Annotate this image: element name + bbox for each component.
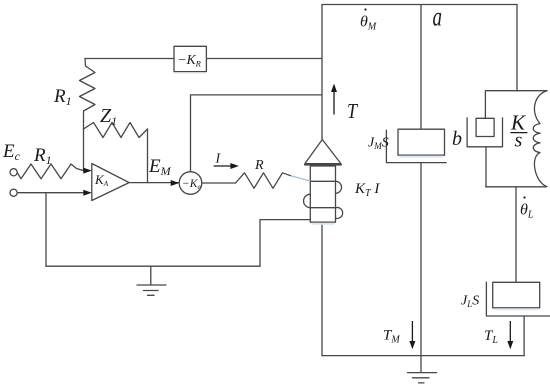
arrow T (up) bbox=[333, 91, 335, 115]
wire -Ke top feedback to theta_M line bbox=[191, 95, 323, 172]
motor base bar bbox=[305, 164, 341, 166]
wire summing node vertical bbox=[83, 129, 85, 171]
wire left vertical (motor shaft node theta_M) bbox=[321, 5, 323, 140]
wire bottom ground bus bbox=[322, 355, 524, 357]
motor coil right bump 1 bbox=[336, 181, 342, 193]
terminal lower input bbox=[10, 189, 17, 196]
shading under JL box bbox=[494, 308, 539, 310]
motor pointer triangle bbox=[305, 140, 341, 164]
svg-text:b: b bbox=[452, 128, 462, 150]
resistor R (horizontal zigzag) bbox=[236, 173, 291, 189]
damper piston box bbox=[476, 118, 494, 136]
arrowhead into op-amp upper bbox=[83, 168, 92, 174]
spring-damper top bar bbox=[486, 90, 547, 92]
shading under JM box bbox=[399, 156, 443, 158]
bracket of JM s bbox=[386, 130, 446, 163]
wire top bus of mechanical network bbox=[322, 4, 517, 6]
wire ground branch vertical bbox=[45, 193, 47, 267]
inertia JM s box bbox=[398, 129, 445, 155]
damper rod bottom bbox=[485, 147, 487, 187]
motor coil left bump bbox=[304, 194, 311, 208]
label K/s fraction bbox=[510, 111, 527, 152]
svg-text:a: a bbox=[433, 1, 443, 31]
wire blue lead resistor R to motor bbox=[291, 176, 310, 181]
terminal upper input bbox=[10, 169, 17, 176]
svg-text:T: T bbox=[347, 99, 358, 123]
wire into op-amp non-inv input bbox=[84, 170, 87, 172]
resistor R1 feedback (vertical zigzag) bbox=[80, 59, 96, 130]
svg-text:R: R bbox=[254, 158, 264, 173]
multiplier -Ke bbox=[179, 172, 202, 195]
wire spring-damper output to JL bbox=[515, 187, 517, 282]
wire right vertical to spring-damper bbox=[516, 5, 518, 91]
spring-damper bottom bar bbox=[486, 186, 546, 188]
wire riser to motor lower terminal bbox=[260, 220, 310, 267]
arrow I bbox=[214, 165, 232, 167]
wire node a vertical bbox=[420, 5, 422, 130]
wire -Ke output bbox=[202, 182, 236, 184]
motor coil right bump 2 bbox=[336, 207, 343, 218]
arrowhead into -Ke bbox=[171, 180, 180, 186]
damper cylinder b bbox=[467, 118, 502, 147]
arrow TL (down) bbox=[509, 321, 511, 342]
motor winding line 1 bbox=[310, 180, 335, 182]
arrow TM (down) bbox=[411, 321, 413, 342]
damper rod top bbox=[484, 91, 486, 119]
wire from R1 feedback top to -KR block bbox=[85, 58, 174, 60]
inertia JL s box bbox=[493, 282, 540, 308]
wire lower-left ground bus bbox=[46, 265, 260, 267]
shading under -KR box bbox=[175, 72, 205, 74]
ground left symbol bbox=[137, 266, 166, 295]
wire Z1 right vertical to EM node bbox=[147, 129, 149, 183]
wire op-amp output to -Ke bbox=[129, 182, 179, 184]
wire JL bracket to ground bus bbox=[523, 316, 525, 356]
motor winding line 2 bbox=[310, 207, 335, 209]
block -KR bbox=[174, 46, 206, 71]
spring K/s coil bbox=[533, 91, 547, 187]
wire motor bottom to ground bus bbox=[321, 222, 323, 355]
bracket of JL s bbox=[486, 282, 550, 316]
ground bottom symbol bbox=[408, 373, 437, 383]
resistor R1 input (horizontal zigzag) bbox=[17, 164, 83, 179]
shading under motor bbox=[311, 223, 334, 225]
resistor Z1 (horizontal zigzag) bbox=[84, 123, 148, 138]
svg-text:s: s bbox=[515, 130, 523, 152]
wire from -KR block to theta_M line bbox=[206, 58, 322, 60]
motor body KT I bbox=[310, 166, 335, 222]
arrowhead into op-amp lower bbox=[83, 190, 92, 196]
wire node a to JM box and down to ground bbox=[420, 163, 422, 373]
op-amp KA bbox=[92, 164, 129, 201]
wire lower input line bbox=[17, 192, 86, 194]
